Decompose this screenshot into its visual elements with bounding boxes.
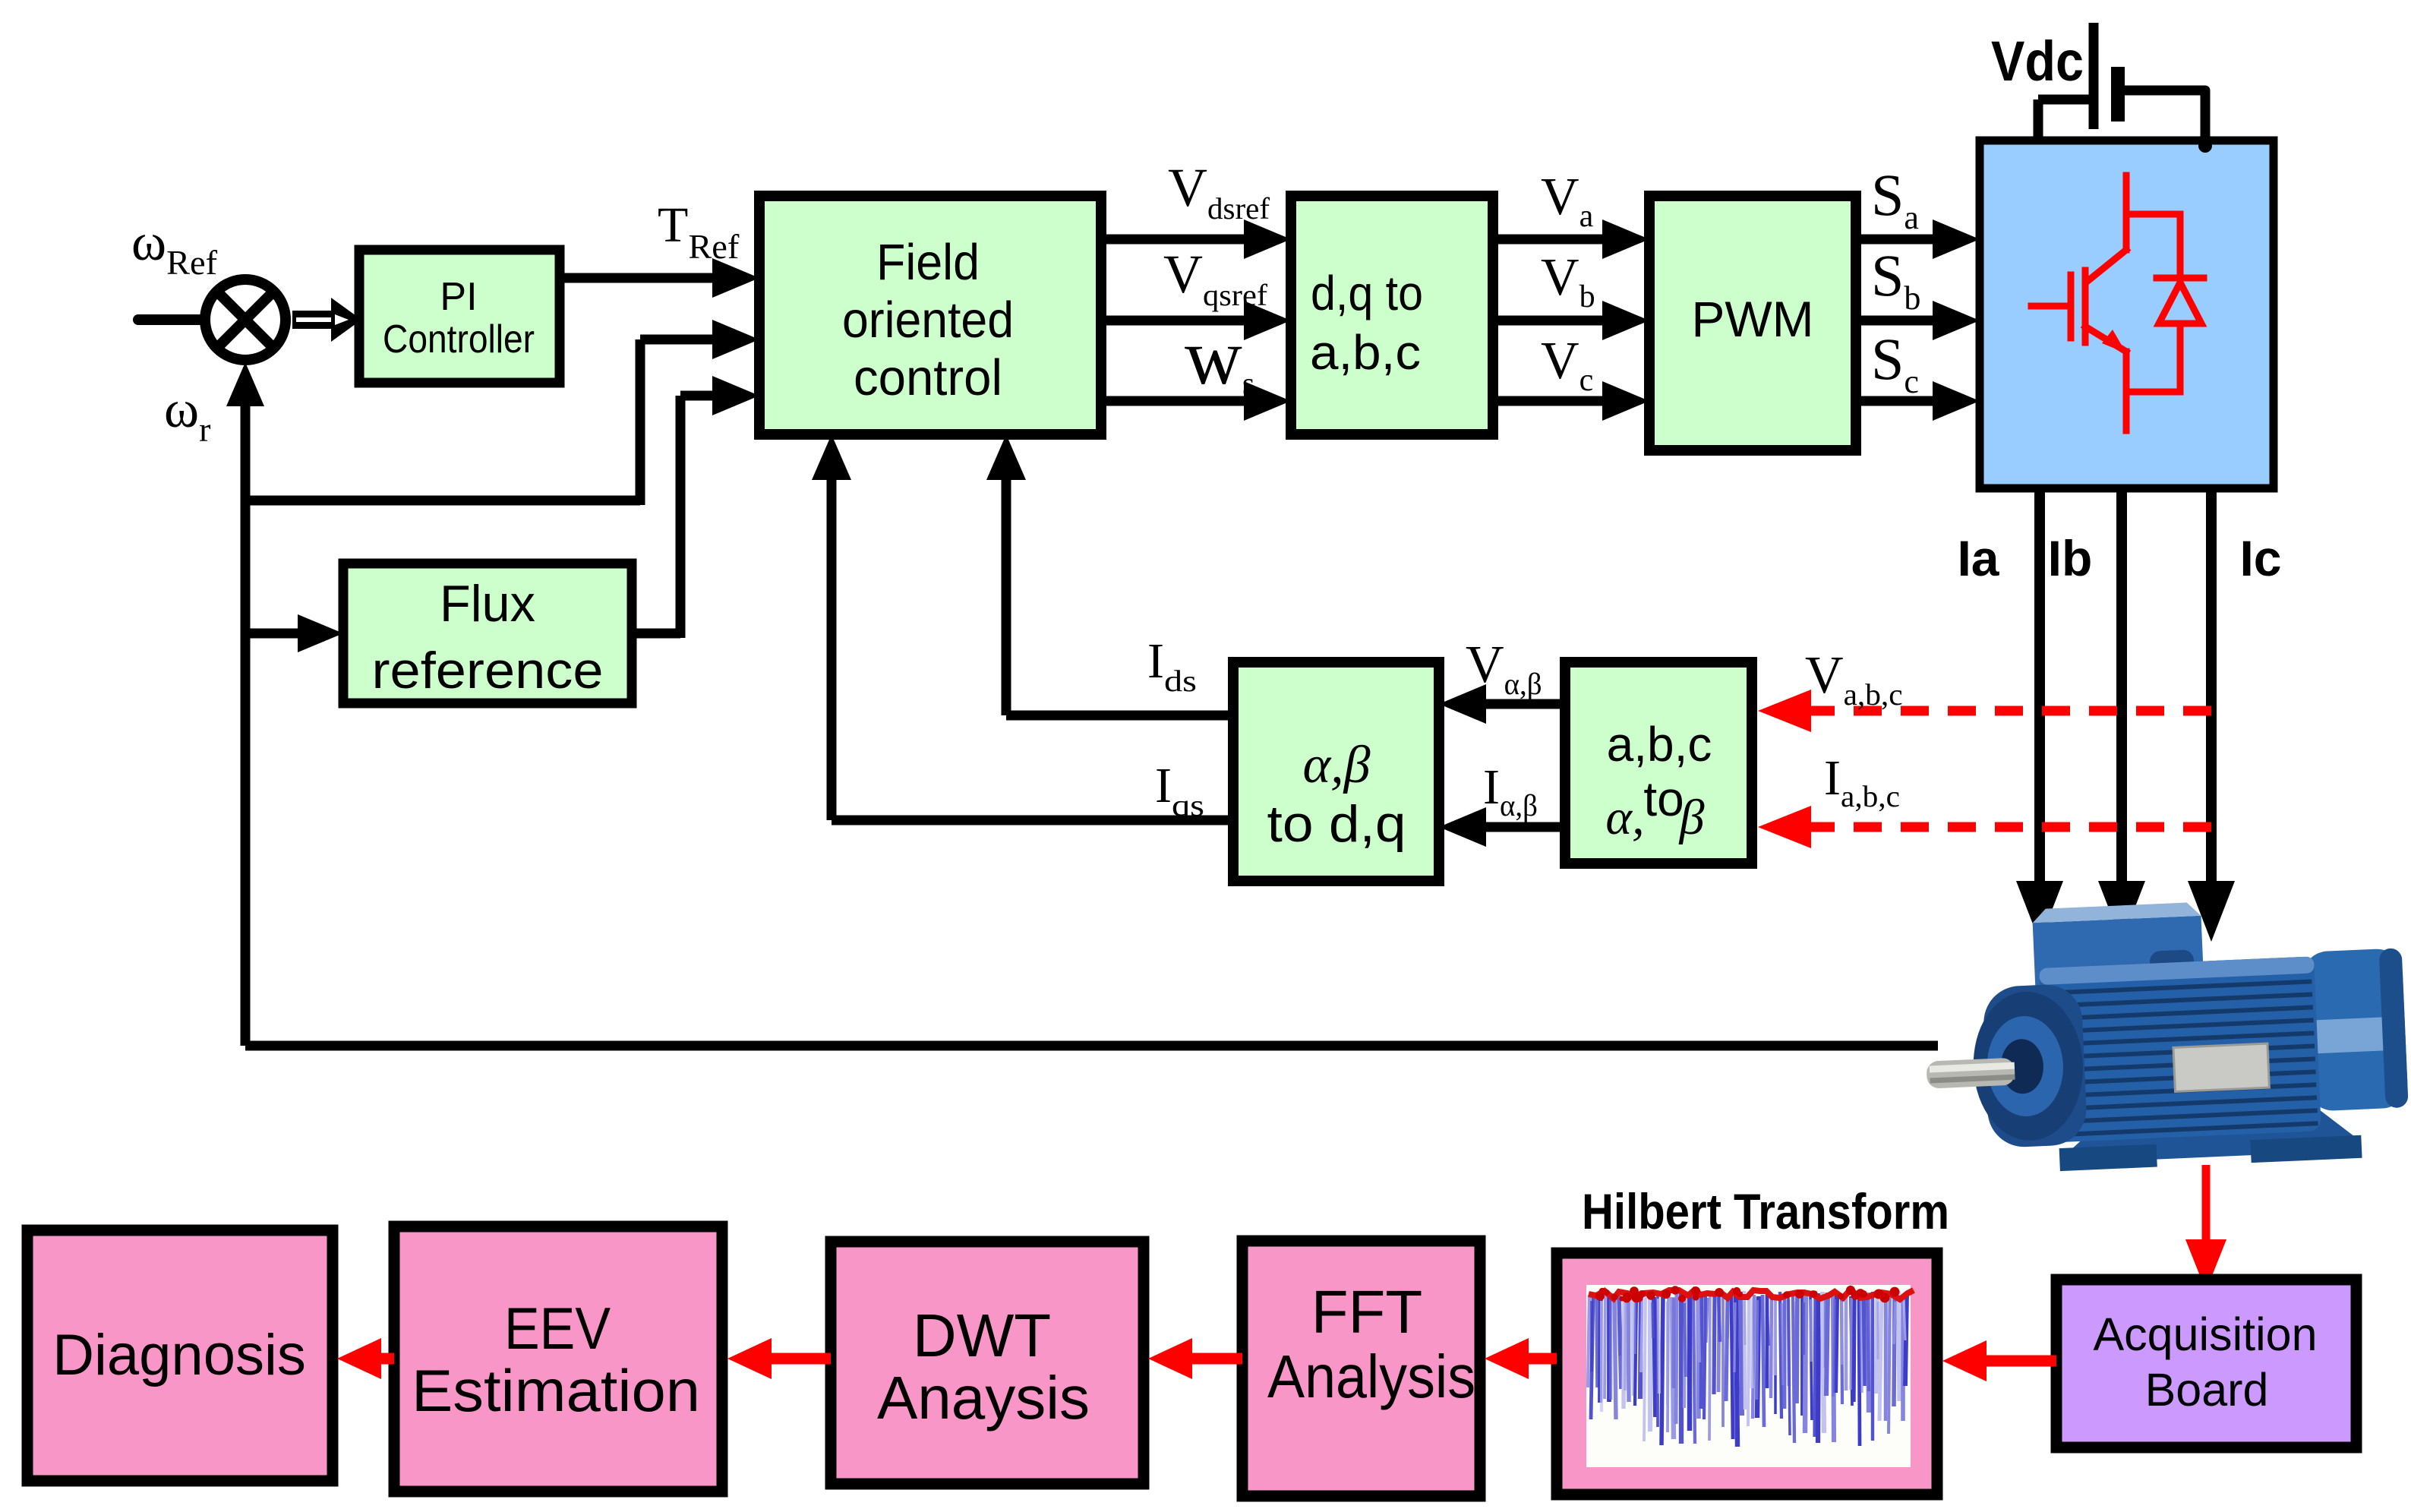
svg-text:EEV: EEV xyxy=(504,1295,611,1362)
svg-text:Diagnosis: Diagnosis xyxy=(52,1323,306,1387)
svg-text:to: to xyxy=(1643,772,1684,826)
svg-text:Field: Field xyxy=(876,234,980,291)
svg-text:Controller: Controller xyxy=(383,317,535,361)
svg-text:Vdc: Vdc xyxy=(1991,30,2084,93)
svg-text:Analysis: Analysis xyxy=(1267,1343,1475,1410)
svg-text:reference: reference xyxy=(372,642,604,699)
svg-text:DWT: DWT xyxy=(913,1302,1051,1369)
svg-text:α,β: α,β xyxy=(1302,736,1370,794)
svg-text:control: control xyxy=(854,349,1002,406)
svg-text:α,: α, xyxy=(1605,790,1644,845)
svg-text:Ic: Ic xyxy=(2239,530,2281,586)
svg-text:PWM: PWM xyxy=(1691,291,1813,347)
svg-text:Acquisition: Acquisition xyxy=(2094,1308,2318,1360)
svg-text:to d,q: to d,q xyxy=(1267,795,1406,853)
svg-text:oriented: oriented xyxy=(842,292,1014,349)
svg-text:PI: PI xyxy=(440,275,477,319)
svg-text:Hilbert Transform: Hilbert Transform xyxy=(1582,1183,1949,1239)
svg-text:Board: Board xyxy=(2145,1364,2269,1416)
svg-text:Estimation: Estimation xyxy=(412,1357,700,1424)
svg-text:d,q to: d,q to xyxy=(1311,266,1423,320)
svg-text:β: β xyxy=(1678,790,1705,845)
svg-text:Anaysis: Anaysis xyxy=(877,1364,1090,1432)
svg-text:Ib: Ib xyxy=(2048,530,2093,586)
svg-text:a,b,c: a,b,c xyxy=(1607,717,1712,772)
svg-text:a,b,c: a,b,c xyxy=(1310,325,1421,380)
svg-text:FFT: FFT xyxy=(1311,1278,1423,1346)
svg-text:Ia: Ia xyxy=(1957,530,1999,586)
svg-text:Flux: Flux xyxy=(440,575,535,633)
